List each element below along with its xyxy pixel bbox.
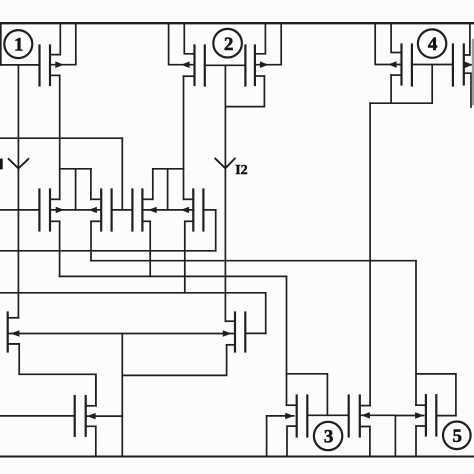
transistor M7 (mirror pair1 right, mirrored) (91, 190, 112, 231)
wire node5 feed y=260.7 (91, 260, 416, 262)
svg-text:5: 5 (453, 426, 463, 447)
svg-text:2: 2 (224, 34, 234, 55)
node 2 label circle (213, 29, 242, 58)
svg-text:1: 1 (14, 35, 24, 56)
wire gate line of pair 4 (412, 64, 453, 66)
I1 current wire (17, 65, 19, 318)
wire M2 drain down to mirror bridge (183, 76, 185, 199)
wire gate drop x=432.2 (431, 65, 433, 104)
wire M9 source down (184, 221, 186, 292)
transistor M10 (big pair left, gate cropped) (8, 313, 20, 352)
transistor M2 (PMOS, left of circle 2, mirrored) (169, 23, 205, 85)
wire bulk tap to VSS x=122.3 (121, 334, 123, 457)
I1 arrowhead (9, 159, 29, 169)
wire mirror gates link right (203, 209, 215, 211)
wire M10 source path to M12 drain (8, 344, 96, 406)
wire gate line of pair 2 (205, 64, 246, 66)
transistor M1 (PMOS, right of circle 1) (0, 23, 76, 85)
node 1 label circle (4, 30, 32, 58)
transistor M6 (mirror pair1 left) (39, 190, 59, 231)
wire pair1 bulk tap (75, 169, 77, 210)
wire mirror gates link mid (112, 209, 133, 211)
wire drop x=122.3 to mirror gates (121, 138, 123, 210)
transistor M12 (bottom left NMOS) (0, 396, 122, 457)
transistor M8 (mirror pair2 left) (132, 190, 152, 231)
wire M12 drain riser (95, 374, 97, 406)
wire M6 source down (59, 221, 61, 276)
wire bias vertical x=370 down to M13 drain (369, 103, 371, 405)
wire pair1 drain bridge (60, 168, 91, 170)
wire pair2 bulk tap (167, 169, 169, 210)
wire big pair bulk line with arrows (8, 330, 235, 337)
wire M3 drain diode link to I2 (225, 76, 264, 107)
transistor M13 (node 3 left, mirrored diode) (267, 396, 308, 457)
transistor M1L cropped stub at left edge (0, 23, 2, 65)
wire pair2 drain bridge (153, 168, 184, 170)
wire M11 gate detour (287, 374, 328, 416)
I1 label remnant (cropped) (0, 159, 3, 170)
wire M15 gate detour (416, 374, 456, 416)
wire node3 feed y=276.4 (60, 275, 287, 277)
wire M15 drain riser (415, 261, 417, 406)
wire diode link y=103 (370, 102, 432, 104)
wire shared bulk drop x=395.4 (394, 415, 396, 456)
transistor M3 (PMOS, right of circle 2) (245, 23, 281, 85)
transistor M9 (mirror pair2 right, mirrored) (184, 190, 204, 231)
VDD top rail (0, 22, 474, 24)
svg-text:4: 4 (428, 34, 438, 55)
transistor M11b (big pair right, mirrored) (225, 313, 245, 352)
I2 arrowhead (215, 158, 235, 168)
node 4 label circle (418, 29, 446, 57)
transistor M5 (PMOS, right of circle 4) (453, 23, 474, 107)
I2 current wire (224, 65, 226, 321)
node 3 label circle (314, 422, 342, 450)
wire node3 gate line (307, 414, 348, 416)
wire bridge right leg (90, 169, 92, 200)
wire drop x=265.7 to big pair gate (265, 293, 267, 334)
wire M11b source to ground tap (122, 345, 226, 376)
svg-text:3: 3 (324, 427, 334, 448)
wire M13 bulk drop to VSS (266, 416, 268, 457)
wire bias line y=250.8 (0, 250, 216, 252)
wire gates riser to y=250.8 (215, 210, 217, 251)
node 5 label circle (443, 422, 471, 450)
wire mirror gates line left (0, 209, 39, 211)
wire drop x=286.5 (286, 276, 288, 405)
wire tail gate line y=292.8 (0, 292, 266, 294)
wire pair1 bulk line with arrows (50, 207, 101, 213)
svg-text:I2: I2 (235, 163, 247, 178)
wire pair2 bulk line with arrows (142, 207, 193, 213)
transistor M15 (node 5, mirrored diode) (416, 395, 456, 456)
wire M8 source down (149, 221, 151, 276)
scan edge artifact (472, 40, 474, 104)
wire M1 drain down to mirror bridge (59, 75, 61, 199)
wire bulk line to M15 (395, 415, 423, 417)
wire big pair right gate link (245, 332, 265, 334)
VSS bottom rail (0, 455, 474, 457)
wire gate-bias line y=138 (0, 137, 122, 139)
transistor M14 (node 3 right) (349, 396, 396, 457)
wire M7 source down (90, 221, 92, 260)
wire bridge left leg (152, 169, 154, 200)
wire M4 drain down (390, 75, 392, 103)
transistor M4 (PMOS diode, left of circle 4, mirrored) (375, 23, 412, 85)
